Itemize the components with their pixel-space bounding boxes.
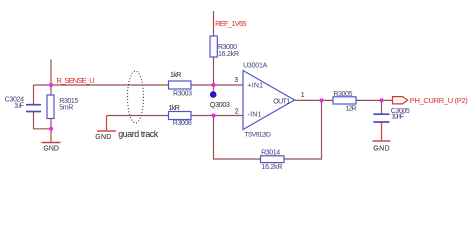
svg-text:PH_CURR_U (P2): PH_CURR_U (P2) [410,96,469,105]
svg-text:1kR: 1kR [170,72,181,79]
wire to ground under R3015 [50,129,52,143]
wire guard track -IN1 line [107,115,244,117]
ground bar under R3015 [42,142,61,144]
guard track ellipse [128,71,144,123]
svg-text:R3005: R3005 [334,91,353,98]
wire REF_1V65 vertical [213,11,215,85]
svg-text:16.2kR: 16.2kR [218,51,239,58]
svg-text:guard track: guard track [118,129,159,139]
wire guard gnd riser [106,116,108,132]
test point Q3003 [210,91,217,98]
svg-text:3: 3 [234,77,238,84]
svg-text:GND: GND [43,146,59,153]
capacitor C3024 plates [26,105,41,112]
node junction C3024 bottom [49,127,53,131]
svg-text:R3014: R3014 [261,150,280,157]
ground bar under C3005 [373,140,391,142]
svg-text:REF_1V65: REF_1V65 [215,19,247,28]
wire op-amp output [295,99,393,101]
node junction +IN1 [212,83,216,87]
svg-text:1uF: 1uF [14,102,24,109]
wire C3024 left branch [33,85,35,105]
svg-text:R_SENSE_U: R_SENSE_U [57,76,95,85]
svg-text:R3003: R3003 [173,90,192,97]
resistor R3000 body [210,36,217,57]
wire C3024 bottom lead [34,112,52,129]
wire R_SENSE_U horizontal to +IN1 [34,84,244,86]
resistor R3003 body [169,81,192,89]
svg-text:U3001A: U3001A [243,63,268,70]
wire feedback drop from -IN1 [214,100,322,159]
svg-text:OUT1: OUT1 [273,98,290,105]
svg-text:Q3003: Q3003 [210,102,230,109]
svg-text:R3008: R3008 [173,120,192,127]
resistor R3008 body [169,112,192,120]
wire C3005 to ground [381,122,383,141]
svg-text:GND: GND [373,146,390,153]
node junction -IN1 [212,114,216,118]
node junction output feedback [320,98,324,102]
svg-text:12R: 12R [346,105,357,112]
op-amp U1 triangle [243,71,295,130]
svg-text:10nF: 10nF [391,113,404,120]
svg-text:1: 1 [301,92,305,99]
svg-text:2: 2 [235,109,239,116]
ground bar guard track [97,130,116,132]
wire R_SENSE_U stub up [50,60,52,86]
svg-text:GND: GND [95,134,111,141]
wire R3015 vertical branch [50,85,52,129]
capacitor C3005 plates [374,114,390,122]
wire C3005 top lead [381,100,383,114]
svg-text:1kR: 1kR [169,105,180,112]
svg-text:+IN1: +IN1 [248,83,264,90]
svg-text:16.2kR: 16.2kR [262,164,283,171]
port PH_CURR_U [393,97,408,104]
svg-text:5mR: 5mR [59,105,73,112]
svg-text:-IN1: -IN1 [248,112,262,119]
resistor R3015 body [47,95,54,119]
resistor R3014 body [261,156,285,163]
svg-text:TSV912ID: TSV912ID [245,131,272,138]
node junction C3005 [380,98,384,102]
node junction R_SENSE_U [49,83,53,87]
resistor R3005 body [333,97,356,104]
wire Q3003 stub [213,85,215,93]
